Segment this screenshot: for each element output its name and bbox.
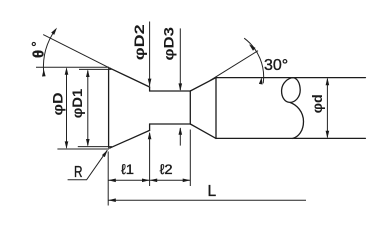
arrow phid top [326, 78, 330, 86]
neck-taper junction line [189, 91, 191, 124]
arrow l2 left [150, 179, 158, 183]
phid dimension line [326, 79, 328, 138]
cone top-left corner round [109, 68, 111, 69]
30deg arc [244, 38, 263, 83]
arrow L left [108, 198, 116, 202]
arrow 30 arc bottom [259, 77, 263, 84]
neck bottom edge [150, 123, 191, 125]
arrow l1 right [142, 179, 150, 183]
arrow phiD bottom [65, 141, 69, 149]
arrow phiD1 top [86, 69, 90, 77]
cone bottom-left corner round [109, 147, 111, 149]
arrow R leader [102, 150, 108, 157]
cone top slope [110, 68, 149, 87]
neck top edge [150, 90, 191, 92]
svg-text:φD3: φD3 [161, 27, 177, 61]
phiD3 leader line [179, 28, 181, 90]
phiD1 top extension line [79, 68, 112, 70]
phiD top extension line [36, 66, 109, 68]
svg-text:θ: θ [31, 50, 48, 58]
phiD bottom extension line [57, 148, 109, 150]
arrow phiD top [65, 67, 69, 75]
arrow phiD3 up [179, 127, 183, 135]
phiD dimension line [66, 69, 68, 148]
theta arc [43, 30, 55, 73]
phiD3 lower leader line [179, 128, 181, 146]
svg-text:φd: φd [309, 94, 325, 113]
shank bottom edge [216, 137, 365, 139]
svg-text:φD2: φD2 [131, 24, 147, 60]
phiD1 dimension line [87, 71, 89, 146]
svg-text:ℓ2: ℓ2 [160, 161, 173, 177]
30deg extension line [210, 51, 258, 81]
phiD2 lower leader line [149, 133, 151, 186]
taper bottom 30deg [190, 124, 216, 138]
cone left face [108, 70, 110, 147]
arrow phiD2 down [148, 79, 152, 87]
arrow phid bottom [326, 131, 330, 139]
arrow l1 left [108, 179, 116, 183]
svg-text:φD1: φD1 [69, 89, 85, 119]
shank top edge [216, 77, 365, 79]
arrow 30 arc top [249, 44, 256, 50]
svg-text:ℓ1: ℓ1 [121, 161, 134, 177]
label theta degree mark [32, 42, 35, 45]
theta slope extension line [43, 35, 110, 69]
cone end step top [149, 87, 151, 91]
extension line below cone left [107, 152, 109, 206]
taper top 30deg [190, 78, 216, 91]
l1 l2 dimension line [108, 179, 190, 181]
svg-text:φD: φD [50, 93, 66, 116]
arrow phiD2 up [148, 132, 152, 140]
cone end step bottom [149, 124, 151, 130]
svg-text:30°: 30° [264, 57, 288, 74]
arrow l2 right [183, 179, 191, 183]
L dimension line [108, 199, 306, 201]
arrow phiD1 bottom [86, 139, 90, 147]
arrow phiD3 down [179, 83, 183, 91]
cone bottom slope [110, 130, 149, 147]
R leader tail [68, 150, 108, 180]
svg-text:R: R [74, 164, 83, 181]
break squiggle [282, 78, 304, 139]
phiD2 leader line [149, 22, 151, 87]
svg-text:L: L [208, 183, 217, 200]
arrow theta arc bottom [42, 69, 46, 77]
extension line below neck end [189, 130, 191, 187]
arrow theta arc top [51, 28, 57, 35]
phiD1 bottom extension line [78, 146, 112, 148]
taper-shank junction line [215, 78, 217, 139]
